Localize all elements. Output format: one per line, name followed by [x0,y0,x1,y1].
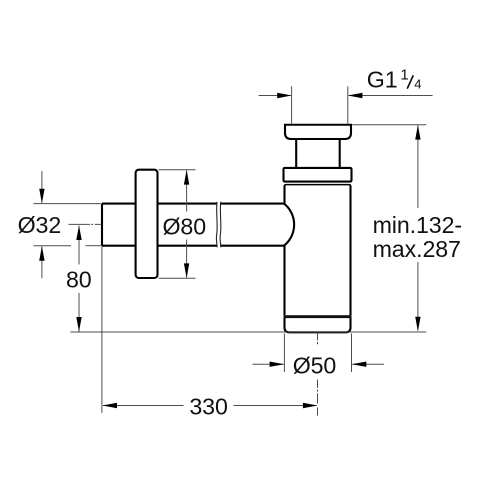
80-dim arrow up [76,225,81,240]
neck left side [295,139,297,168]
80-dim upper shaft [78,226,80,265]
svg-text:min.132-: min.132- [373,212,462,238]
wall pipe top edge [102,203,284,205]
dia50 left arrow line [253,363,284,365]
bottom reference line [70,331,426,333]
nut [284,168,352,182]
svg-text:4: 4 [414,76,421,91]
wall rosette flange [136,170,158,278]
right dim arrow down [415,317,420,332]
svg-text:max.287: max.287 [373,236,461,262]
bottom cap [285,318,351,333]
80-dim arrow down [76,317,81,332]
dia80 arrow up [184,170,189,185]
dia32 arrow up [39,246,44,261]
right dim line upper segment [417,126,419,209]
dia32 top arrow shaft [41,171,43,203]
fraction slash [407,75,413,88]
G-dim right arrow line [349,95,433,97]
cap joint thick band [284,315,352,318]
330 dim line right segment [234,405,317,407]
dia50 left extension [283,334,285,373]
body right side [349,186,351,316]
dia50 arrow left-pointing [352,362,367,367]
dia32 bottom extension left [34,245,72,247]
svg-text:80: 80 [66,266,92,292]
dia32 bottom extension right [86,245,102,247]
dia50 right arrow line [353,363,385,365]
pipe centerline (dash-dot) [69,224,318,415]
dia50 arrow right-pointing [270,362,285,367]
neck right side [339,139,341,168]
dia32 bottom arrow shaft [41,247,43,279]
dia80 arrow down [184,263,189,278]
G-dim left arrow line [259,95,291,97]
G-dim extension line right [347,86,349,123]
dia50 right extension [351,334,353,373]
top flange (G thread connector) [285,125,351,139]
dia80 top extension [159,169,196,171]
body left side lower segment [283,246,285,316]
right dim line lower segment [417,262,419,331]
svg-text:330: 330 [189,394,227,420]
80-dim lower shaft [78,293,80,332]
break line right [219,202,222,248]
330 arrow left-pointing [102,403,117,408]
right dim arrow up [415,125,420,140]
G-dim extension line left [291,86,293,123]
dia32 top extension [34,203,102,205]
wall pipe left end [101,204,103,246]
svg-text:1: 1 [400,66,408,83]
wall pipe bottom edge [102,245,284,247]
inlet pipe end bulge [284,204,294,246]
svg-text:Ø80: Ø80 [163,213,207,239]
dia80 dim line lower segment [186,240,188,278]
dia80 dim line upper segment [186,171,188,212]
dia32 arrow down [39,189,44,204]
svg-text:Ø50: Ø50 [293,353,337,379]
svg-text:G1: G1 [367,66,398,92]
G-dim arrow right-pointing [277,93,292,98]
right dim top extension [352,124,426,126]
svg-text:Ø32: Ø32 [18,212,62,238]
body top edge [285,185,351,186]
G-dim arrow left-pointing [348,93,363,98]
break line left [215,202,218,248]
330 arrow right-pointing [303,403,318,408]
dia80 bottom extension [159,277,196,279]
330 left extension line [101,247,103,414]
330 dim line left segment [103,405,184,407]
bottle centerline (dash-dot) [317,333,319,416]
body left side upper segment [283,186,285,204]
pipe break squiggles [216,202,220,248]
